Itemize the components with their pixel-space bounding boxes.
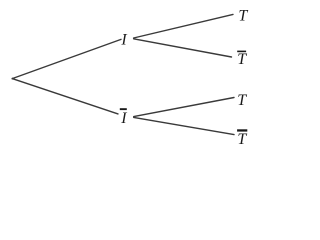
svg-text:T: T	[237, 92, 247, 109]
wire I to T-bar	[134, 39, 232, 57]
svg-text:I: I	[120, 110, 127, 127]
wire root to I	[12, 39, 121, 78]
probability tree diagram	[0, 0, 289, 158]
node root junction dot	[12, 78, 14, 80]
svg-text:I: I	[120, 32, 127, 49]
svg-text:T: T	[237, 131, 247, 148]
svg-text:T: T	[237, 51, 247, 68]
wire I-bar to T-bar	[134, 117, 234, 134]
svg-text:T: T	[238, 7, 248, 24]
wire I to T	[134, 14, 233, 38]
wire root to I-bar	[12, 79, 118, 114]
wire I-bar to T	[134, 98, 234, 117]
